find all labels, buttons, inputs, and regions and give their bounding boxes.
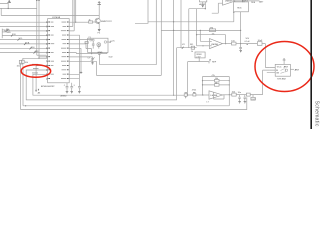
node wire PD4 with flag	[0, 38, 48, 41]
box U6 regulator	[233, 2, 248, 22]
op-amp U2 top	[223, 0, 236, 5]
wire OSC feed B	[69, 0, 161, 75]
svg-text:2.5V: 2.5V	[196, 56, 201, 58]
U5 pin right	[290, 68, 299, 71]
svg-text:U1 MG8: U1 MG8	[52, 17, 61, 19]
wire stub U2 input net	[212, 3, 223, 13]
input chain R8	[184, 93, 193, 98]
wire N1 to input chain	[188, 62, 200, 95]
wire U4 out chain	[223, 92, 247, 97]
feedback resistor R7	[209, 27, 215, 35]
wire U4 feedback	[213, 93, 224, 100]
wire XTAL2	[69, 43, 86, 44]
svg-text:GND: GND	[6, 32, 11, 34]
U1 right pin numbers	[67, 22, 69, 79]
wire AVCC branch	[69, 35, 79, 86]
capacitor C12	[243, 0, 249, 2]
svg-text:STX 882: STX 882	[277, 78, 286, 80]
wire U6 to mid rail	[240, 12, 241, 44]
node wire PB0 with flag	[0, 50, 48, 54]
crystal module Y1	[88, 37, 108, 53]
net label dashes PC pins	[32, 64, 39, 73]
power flag VCC Q1	[97, 2, 101, 5]
wire feed to opamp2	[189, 9, 206, 48]
wire pin to varicap	[69, 57, 92, 59]
svg-text:10uF: 10uF	[258, 40, 263, 42]
wire fb tap	[200, 30, 210, 42]
wire corner L	[135, 0, 148, 23]
svg-text:LM358: LM358	[225, 0, 232, 2]
varicap CV1	[88, 57, 95, 64]
svg-text:0.1uF: 0.1uF	[245, 41, 251, 43]
capacitor C7 in module	[98, 47, 101, 49]
wire vertical bus T	[173, 0, 175, 95]
ground J2	[202, 2, 204, 7]
svg-text:REF: REF	[212, 61, 217, 63]
node wire PD3 with flag	[2, 34, 47, 37]
red ellipse right	[255, 42, 314, 92]
svg-text:50V: 50V	[246, 38, 250, 40]
IC U1 microcontroller	[41, 17, 69, 88]
wire U1 right pin extra vertical	[69, 48, 81, 71]
wire labeled mid feed	[177, 0, 197, 53]
op-amp U3	[197, 39, 223, 49]
power cross AREF	[80, 71, 83, 74]
label box N1	[195, 52, 205, 58]
wire U1 right pins to top bus	[69, 0, 76, 31]
capacitor C1	[64, 83, 69, 94]
svg-text:LM358: LM358	[211, 95, 218, 97]
wire N1 net	[199, 58, 217, 64]
U4 gain network rails	[202, 75, 230, 106]
svg-text:ANT: ANT	[295, 68, 300, 71]
wire emitter with flag	[98, 23, 101, 34]
svg-text:GN: GN	[276, 73, 280, 75]
power flag VCC top-left	[7, 1, 11, 3]
svg-text:CLK: CLK	[111, 41, 116, 43]
ground rail crystal	[69, 49, 107, 55]
connector J2	[199, 0, 206, 9]
U1 left pin arrowheads	[46, 22, 47, 80]
svg-text:AGND: AGND	[61, 95, 68, 98]
svg-text:VCC: VCC	[277, 66, 282, 68]
resistor R3 vertical	[19, 60, 22, 109]
capacitor C3	[78, 86, 81, 93]
svg-text:VO: VO	[182, 44, 185, 46]
wire bottom bus B	[21, 97, 247, 109]
wire XTAL1	[69, 39, 93, 41]
node wire PD0	[0, 21, 48, 23]
transistor Q1	[95, 18, 112, 23]
wire bottom bus A	[23, 105, 229, 107]
svg-text:Schematic: Schematic	[313, 101, 319, 127]
node wire PB2	[23, 57, 48, 58]
svg-text:ANT: ANT	[284, 65, 289, 68]
svg-text:LM358: LM358	[211, 44, 218, 46]
capacitor C2	[70, 83, 75, 94]
capacitor C11	[244, 95, 247, 104]
wire pin PC1 loop	[26, 48, 176, 100]
wire module output	[107, 41, 111, 43]
wire J2 drop	[196, 9, 197, 46]
node wire PD1	[0, 26, 48, 28]
node wire PD6 with flag	[0, 46, 48, 50]
resistor R10	[246, 70, 262, 96]
wire OSC feed A	[100, 0, 157, 65]
svg-text:ANT: ANT	[259, 0, 264, 3]
U1 left pin numbers	[48, 22, 50, 79]
wire pin PC2 loop	[33, 74, 184, 95]
U5 pins left	[263, 68, 280, 75]
wire top long TX	[148, 21, 234, 22]
IC U5 analog switch	[275, 64, 290, 76]
svg-text:OUT: OUT	[251, 99, 256, 101]
sheet border	[310, 0, 312, 129]
wire U3 out chain	[223, 41, 241, 45]
svg-text:ATMEGA328P: ATMEGA328P	[41, 85, 55, 88]
connector J1 bracket	[2, 29, 11, 39]
U1 pin name labels	[51, 22, 67, 79]
wire U2 out	[235, 0, 259, 2]
capacitor C6 in module	[92, 41, 95, 49]
node wire PD2 with flag	[4, 29, 48, 32]
svg-text:MMBT2222: MMBT2222	[101, 21, 113, 23]
wire top-left power feed	[0, 3, 99, 15]
crystal X1	[97, 43, 101, 47]
junction dots bottom-left	[25, 105, 26, 106]
resistor R4 base	[76, 19, 96, 23]
op-amp U4 bottom	[207, 91, 223, 104]
resistor R2 vertical	[22, 58, 29, 65]
node wire PB1	[37, 54, 48, 56]
capacitor C9 series	[241, 40, 266, 67]
vertical wire pair node RESET	[36, 0, 40, 59]
wire long mid RX	[161, 30, 240, 31]
red ellipse left	[21, 65, 51, 78]
wire collector	[98, 4, 100, 18]
resistor R5 in module	[85, 42, 88, 49]
power U5	[283, 59, 286, 65]
svg-text:SDA: SDA	[25, 41, 30, 44]
capacitor C10	[238, 95, 241, 104]
wire pin PC0 to flag	[35, 66, 48, 95]
box OUT label	[251, 95, 257, 101]
node wire PD5 with flag	[0, 41, 48, 45]
junction and cap C8	[239, 38, 250, 52]
capacitor C5	[17, 66, 24, 106]
resistor R9	[192, 90, 209, 96]
wire bias rail	[197, 35, 227, 45]
